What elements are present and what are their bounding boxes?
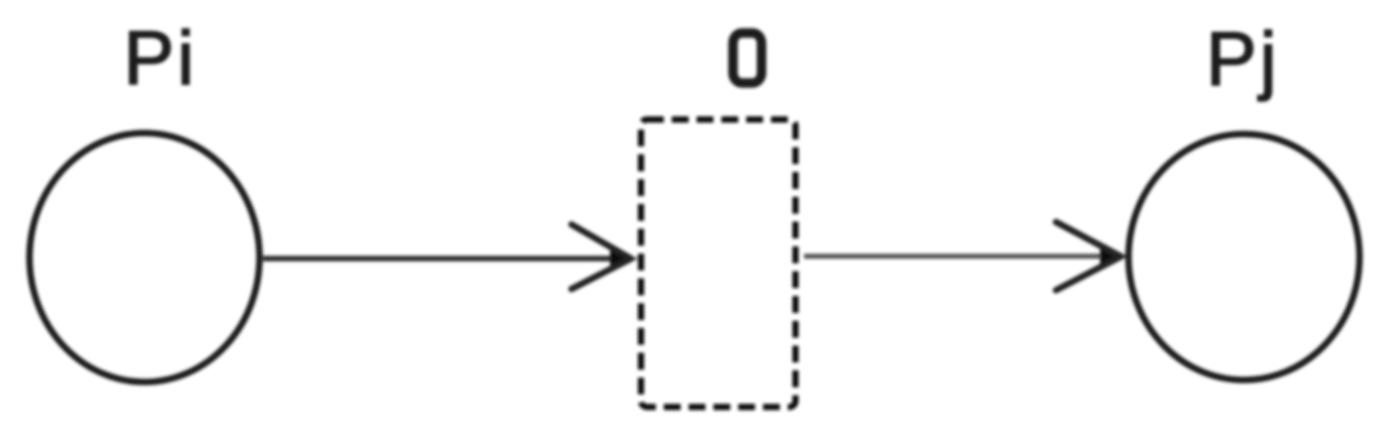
svg-text:Pj: Pj [1206,17,1280,102]
svg-text:Pi: Pi [124,16,198,101]
arrowhead into transition (open barbs) [572,225,632,290]
wire: arc transition to Pj (shaft) [804,254,1106,259]
place Pi [30,133,260,382]
arrowhead into Pj (filled tip) [1101,248,1125,265]
arrowhead into transition (filled tip) [611,250,635,267]
label 0 [733,33,762,83]
transition 0 (dashed rectangle) [641,120,796,408]
arrowhead into Pj (open barbs) [1056,222,1121,290]
place Pj [1129,134,1360,380]
wire: arc Pi to transition (shaft) [263,256,616,262]
